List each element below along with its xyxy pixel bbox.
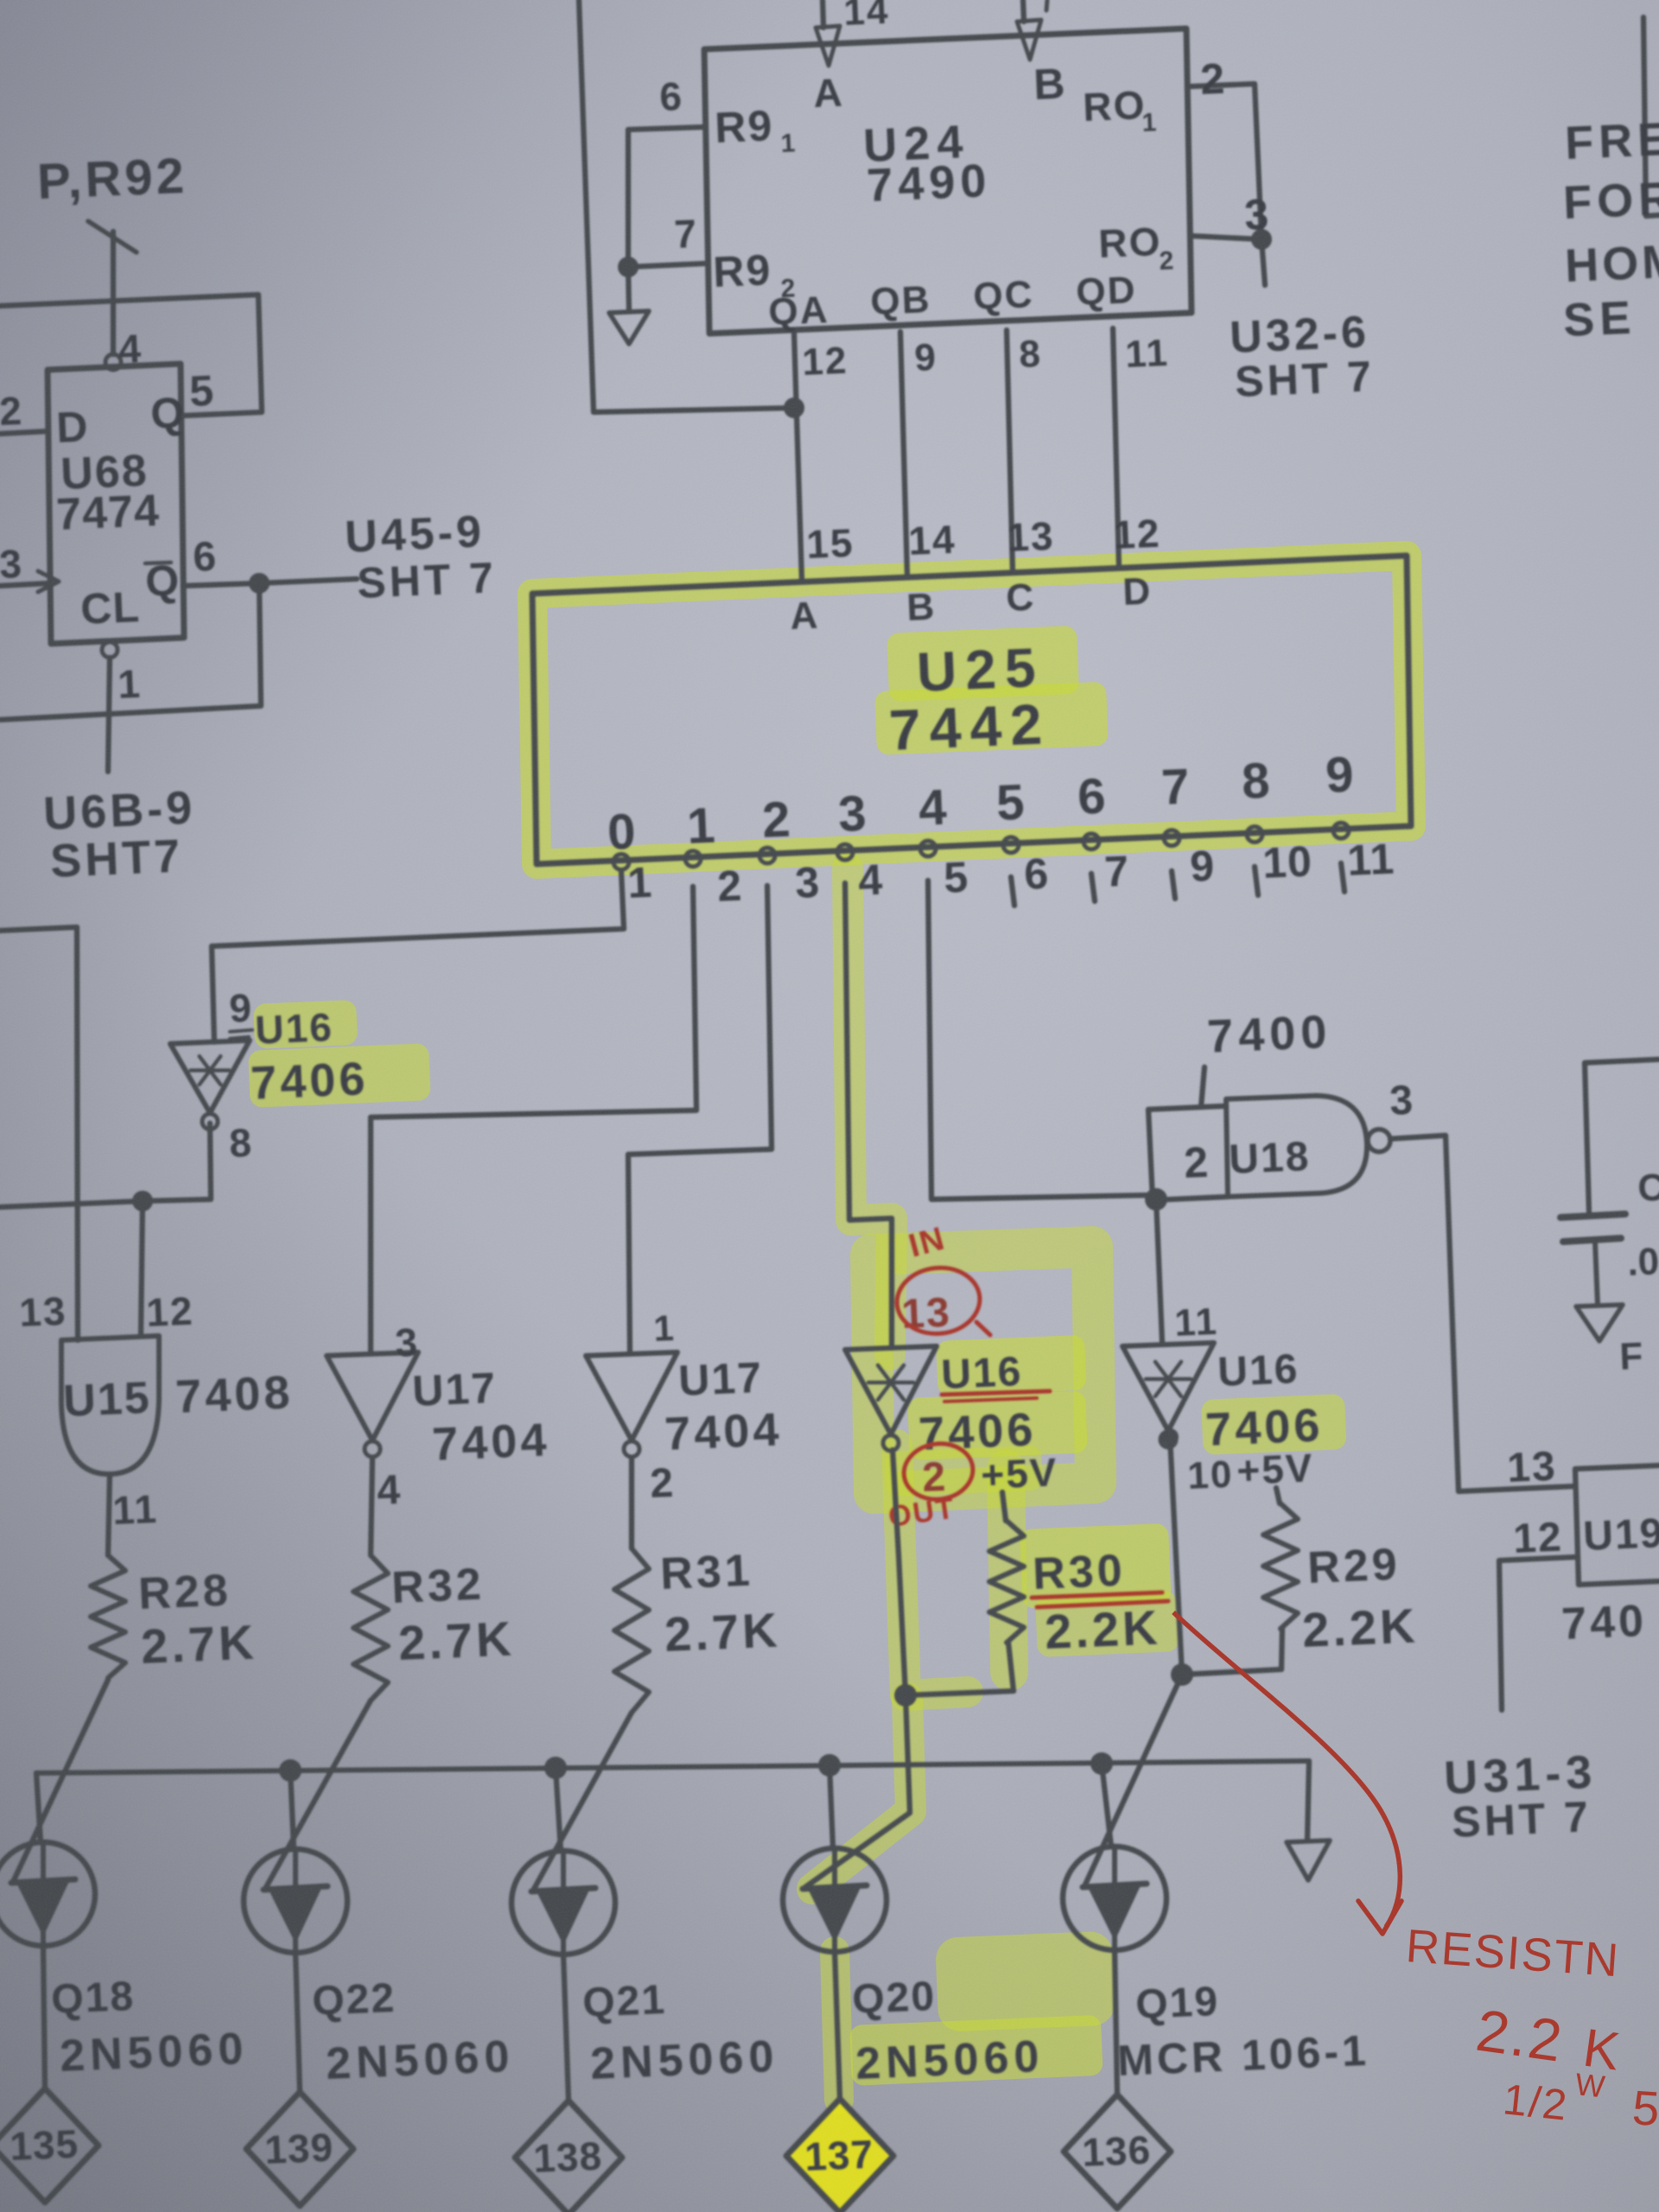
highlight diamond 137 fill <box>786 2099 893 2212</box>
inverter U16 pin9 (7406) <box>170 1040 250 1113</box>
wire junction to left edge <box>0 1201 143 1207</box>
highlight U25 box ring <box>532 556 1411 864</box>
junction pins 6-7 <box>618 257 639 277</box>
wire Q20 cathode to 137 <box>835 1952 840 2099</box>
wire Q21 anode <box>556 1768 561 1851</box>
wire U16-2 output down <box>893 1450 906 1695</box>
U68 Q pin5 loop wire <box>0 295 262 416</box>
wire junction down to U15 pin12 <box>141 1201 143 1336</box>
highlight R30 resistor band <box>1006 1469 1009 1672</box>
highlight R30 label <box>1020 1523 1172 1609</box>
U24 pin 6 wire R9-1 <box>628 127 704 267</box>
diamond 138 <box>515 2101 622 2212</box>
inverter U16 pin13 (7406) highlighted <box>845 1346 937 1434</box>
highlight U25 label <box>887 626 1079 702</box>
wire QC to U25 C <box>1007 330 1013 573</box>
diamond 139 <box>246 2092 353 2206</box>
anode bus wire <box>36 1761 1309 1773</box>
capacitor C <box>1560 1214 1625 1217</box>
wire P,R92 to preset pin 4 <box>111 232 116 354</box>
wire QB to U25 B <box>900 332 907 577</box>
junction U16-2 output / R30 <box>894 1684 917 1707</box>
highlight U16 output wire band <box>897 1445 968 1695</box>
clock wedge <box>38 571 59 592</box>
junction U16-10 / R29 <box>1171 1663 1193 1686</box>
resistor R29 2.2K <box>1263 1503 1298 1629</box>
wire Q19 anode <box>1102 1764 1111 1847</box>
red arrow curve to note <box>1173 1612 1400 1927</box>
preset bubble pin 4 <box>105 354 121 370</box>
U24 pin 14 input wire <box>823 0 823 28</box>
ground wire stub <box>628 267 629 311</box>
stub U25 pin6 <box>1011 877 1014 906</box>
wire to Q19 gate <box>1085 1675 1182 1885</box>
U24 pin 3 RO2 wire <box>1192 236 1262 239</box>
wire U16-8 output down to junction <box>143 1123 211 1201</box>
thyristor Q20 <box>783 1848 887 1952</box>
ground symbol capacitor <box>1576 1305 1623 1341</box>
wire U25 pin3 output to U17 inverter <box>628 886 772 1352</box>
thyristor Q21 <box>512 1851 615 1955</box>
U19 pin12 wire and stub U31-3 <box>1499 1557 1575 1710</box>
U68 pin 6 Qbar wire <box>183 583 259 586</box>
highlight U16 label (third inverter) <box>936 1335 1087 1396</box>
junction Q22 anode <box>279 1759 302 1782</box>
wire Q22 cathode to 139 <box>296 1953 300 2092</box>
resistor R32 2.7K <box>353 1555 388 1700</box>
U18 output wire to U19 pin13 <box>1390 1135 1575 1491</box>
stub U25 pin11 <box>1341 863 1344 892</box>
U18 pin1 stub <box>1201 1067 1205 1107</box>
diamond 137 <box>786 2099 893 2212</box>
wire R28 to Q18 gate <box>14 1680 108 1880</box>
inverter U17 pin3 (7404) <box>327 1352 418 1440</box>
wire junction down to U16 fourth inverter <box>1156 1199 1162 1342</box>
wire Q19 cathode to 136 <box>1115 1950 1117 2094</box>
diamond 136 <box>1064 2094 1171 2209</box>
wire U25 pin1 output to U16 inverter <box>212 872 624 1042</box>
U24 pin 1 input wire <box>1023 0 1024 22</box>
IC U19 box partial <box>1575 1465 1659 1585</box>
wire U17-4 output to R32 <box>371 1459 372 1555</box>
U18 output bubble <box>1368 1129 1390 1152</box>
junction U16-8 / U15-12 <box>132 1191 153 1211</box>
wire U17-2 output to R31 <box>629 1459 634 1548</box>
highlight wire U25 pin4 to U16 inverter <box>848 868 892 1355</box>
highlight 7406 label (third inverter) <box>907 1390 1088 1460</box>
wire QA to U25 A <box>794 334 802 582</box>
U24 pin 1 label stub <box>1046 0 1047 10</box>
junction pin6 <box>249 573 270 594</box>
wire +5V to R30 <box>1002 1492 1006 1521</box>
resistor R31 2.7K <box>614 1548 649 1713</box>
IC U25 7442 box <box>532 556 1411 864</box>
wire junction to R29 bottom <box>1182 1669 1281 1675</box>
junction Q19 anode <box>1090 1752 1113 1775</box>
diamond 135 <box>0 2088 99 2202</box>
U68 pin 1 bubble <box>102 642 118 658</box>
wire U25 pin2 output to U17 inverter <box>371 887 696 1352</box>
thyristor Q18 <box>0 1842 95 1946</box>
wire A from left to U15 pin13 <box>0 927 78 1340</box>
wire U25 pin5 output to U18 junction <box>928 880 1156 1199</box>
highlight Q20 gate wire band <box>812 1698 911 1889</box>
wire +5V to R29 <box>1276 1488 1280 1503</box>
wire U16-10 output down <box>1170 1437 1182 1675</box>
wire QD to U25 D <box>1113 328 1119 568</box>
off-page arrow symbol <box>1287 1840 1330 1880</box>
thyristor Q19 <box>1063 1847 1166 1950</box>
junction QA feedback <box>784 397 804 418</box>
stub U25 pin7 <box>1091 874 1095 901</box>
NAND gate U18 <box>1226 1096 1367 1197</box>
resistor R30 2.2K <box>989 1521 1024 1643</box>
junction Q21 anode <box>544 1757 567 1779</box>
inverter U17 pin1 (7404) <box>586 1352 677 1440</box>
highlight ring around U16 third inverter <box>871 1247 1096 1493</box>
highlight band +5V row <box>885 1445 1043 1497</box>
QA feedback wire to top <box>579 0 794 412</box>
U24 pin 14 arrowhead <box>816 26 840 66</box>
stub U25 pin10 <box>1255 867 1258 895</box>
U68 pin 2 D input wire <box>0 431 48 434</box>
wire Q22 anode <box>290 1770 294 1849</box>
highlight 2N5060 Q20 label <box>849 2015 1103 2086</box>
wire R31 to Q21 gate <box>534 1713 632 1889</box>
junction U18 pin2 / U25 pin5 / U16 pin11 <box>1145 1188 1167 1211</box>
U24 pin 7 wire R9-2 <box>628 264 704 267</box>
wire Q21 cathode to 138 <box>563 1955 569 2101</box>
U18 pin2 square bottom <box>1153 1197 1228 1200</box>
U18 input tie square <box>1148 1106 1226 1200</box>
U24 pin 2 RO1 wire <box>1192 84 1262 239</box>
wire U15 output to R28 <box>108 1474 110 1555</box>
U68 pin6 loop down wire <box>0 583 261 720</box>
U24 pin 1 arrowhead <box>1017 20 1041 60</box>
wire junction to R30 bottom <box>906 1691 1014 1695</box>
wire R32 to Q22 gate <box>266 1700 371 1887</box>
wire Q18 anode <box>36 1773 41 1842</box>
highlight 7406 label (fourth inverter) <box>1201 1394 1347 1455</box>
U16-10 output junction blob <box>1161 1428 1179 1446</box>
U25 output pin bubbles <box>613 855 629 870</box>
stub U25 pin9 <box>1172 871 1175 899</box>
U68 pin 3 CL input wire <box>0 583 49 586</box>
junction Q20 anode <box>818 1754 841 1777</box>
highlight 7442 label <box>874 682 1109 755</box>
bus right corner down to arrow <box>1307 1761 1309 1840</box>
wire Q18 cathode to 135 <box>43 1946 45 2088</box>
highlight 2.2K label R30 <box>1035 1591 1179 1657</box>
highlight U16 7406 labels (first inverter) <box>253 1000 358 1049</box>
highlight Q20 cathode wire band <box>835 1951 839 2100</box>
highlight blob right of Q20 <box>935 1930 1116 2031</box>
wire to Q20 gate <box>805 1695 910 1887</box>
thyristor Q22 <box>244 1849 347 1953</box>
IC U68 7474 box <box>48 364 184 644</box>
wire to capacitor <box>1585 1059 1659 1211</box>
IC U24 7490 box <box>704 29 1192 334</box>
AND gate U15 7408 <box>61 1336 159 1474</box>
U68 pin 1 wire stub U68-9 <box>108 658 110 772</box>
wire U25 pin4 output to U16 inverter (highlighted) <box>845 883 892 1348</box>
right edge partial wire <box>1643 17 1659 216</box>
resistor R28 2.7K <box>91 1555 125 1678</box>
inverter U16 pin11 (7406) <box>1122 1343 1214 1431</box>
stub to U32-6 <box>1262 239 1265 285</box>
ground symbol U24 <box>609 311 649 344</box>
stub to U45-9 <box>259 579 357 583</box>
wire Q20 anode <box>829 1765 833 1848</box>
junction RO1-RO2 <box>1251 229 1272 250</box>
